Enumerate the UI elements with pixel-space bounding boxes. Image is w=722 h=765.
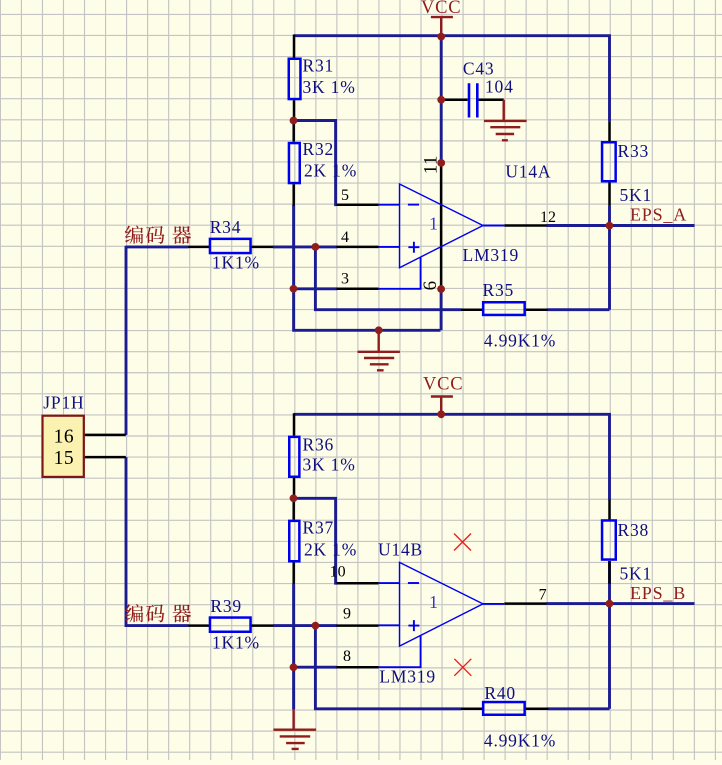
- svg-text:1: 1: [429, 592, 438, 612]
- svg-text:R31: R31: [303, 55, 335, 75]
- svg-text:3K 1%: 3K 1%: [303, 455, 356, 475]
- svg-text:R36: R36: [303, 434, 335, 454]
- svg-text:1K1%: 1K1%: [212, 252, 260, 272]
- svg-text:5K1: 5K1: [620, 185, 653, 205]
- svg-text:6: 6: [420, 281, 441, 291]
- svg-text:R32: R32: [303, 139, 335, 159]
- svg-text:8: 8: [343, 648, 351, 665]
- svg-text:11: 11: [420, 155, 441, 174]
- svg-text:R35: R35: [483, 280, 515, 300]
- svg-text:2K 1%: 2K 1%: [304, 540, 357, 560]
- svg-text:104: 104: [485, 77, 514, 97]
- svg-text:9: 9: [343, 606, 351, 623]
- svg-text:5: 5: [341, 187, 349, 204]
- svg-text:R40: R40: [484, 683, 516, 703]
- svg-text:R38: R38: [618, 520, 650, 540]
- svg-text:1K1%: 1K1%: [212, 633, 260, 653]
- svg-text:LM319: LM319: [463, 245, 520, 265]
- svg-text:4.99K1%: 4.99K1%: [484, 730, 556, 750]
- svg-text:LM319: LM319: [379, 666, 436, 686]
- svg-text:5K1: 5K1: [620, 564, 653, 584]
- svg-text:U14B: U14B: [378, 540, 423, 560]
- svg-text:R33: R33: [618, 141, 650, 161]
- svg-text:3K 1%: 3K 1%: [303, 77, 356, 97]
- svg-text:R34: R34: [210, 217, 242, 237]
- svg-text:VCC: VCC: [421, 0, 461, 18]
- svg-text:VCC: VCC: [423, 375, 463, 395]
- svg-text:EPS_B: EPS_B: [630, 583, 686, 603]
- svg-text:16: 16: [54, 427, 75, 448]
- svg-text:15: 15: [54, 448, 75, 469]
- svg-text:1: 1: [429, 213, 438, 233]
- svg-text:4.99K1%: 4.99K1%: [484, 330, 556, 350]
- svg-text:7: 7: [539, 586, 547, 603]
- svg-text:JP1H: JP1H: [43, 392, 84, 412]
- svg-text:R39: R39: [210, 596, 242, 616]
- svg-text:3: 3: [341, 271, 349, 288]
- svg-text:R37: R37: [303, 517, 335, 537]
- svg-text:4: 4: [341, 229, 349, 246]
- svg-text:C43: C43: [463, 59, 495, 79]
- svg-text:10: 10: [330, 563, 346, 580]
- svg-text:U14A: U14A: [505, 162, 551, 182]
- svg-text:12: 12: [540, 209, 556, 226]
- svg-text:EPS_A: EPS_A: [630, 205, 687, 225]
- svg-text:2K 1%: 2K 1%: [304, 161, 357, 181]
